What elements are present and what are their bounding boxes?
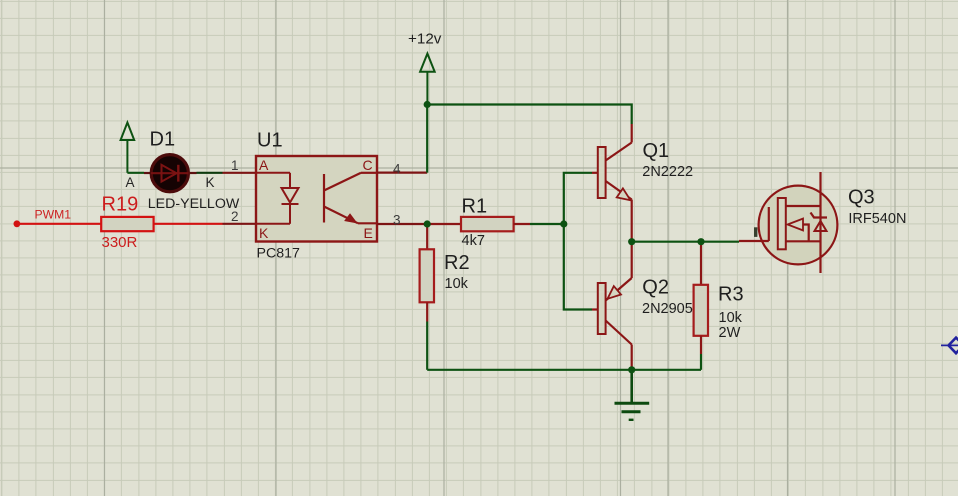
- value 2N2222: [642, 164, 693, 180]
- svg-text:E: E: [364, 225, 373, 241]
- svg-text:D1: D1: [150, 129, 176, 151]
- svg-text:3: 3: [393, 212, 401, 227]
- node PWM1 label: [35, 208, 72, 222]
- svg-text:IRF540N: IRF540N: [848, 211, 906, 227]
- label R2: [444, 252, 470, 274]
- label Q3: [848, 186, 875, 208]
- svg-text:2N2905: 2N2905: [642, 301, 693, 317]
- junction gate node: [697, 238, 704, 245]
- LED D1: [151, 155, 189, 192]
- pin 4 stub of U1: [377, 172, 427, 174]
- U1 pin name E: [364, 225, 373, 241]
- value PC817: [257, 246, 300, 262]
- svg-text:A: A: [259, 157, 269, 173]
- svg-text:Q1: Q1: [643, 140, 670, 162]
- R1 right lead: [514, 223, 530, 225]
- label D1: [150, 129, 176, 151]
- D1 cathode pin stub: [188, 172, 197, 174]
- value LED-YELLOW: [148, 196, 240, 212]
- U1 pin name C: [363, 157, 373, 173]
- wire R2 to ground rail: [426, 322, 428, 370]
- power terminal +V (anode of D1): [121, 123, 135, 173]
- junction +12v node: [424, 101, 431, 108]
- wire emitter node to gate node: [632, 241, 701, 243]
- svg-text:1: 1: [231, 158, 239, 173]
- resistor R1: [461, 217, 514, 231]
- junction base node: [560, 220, 567, 227]
- svg-text:U1: U1: [257, 130, 283, 152]
- value 330R: [102, 234, 138, 251]
- optocoupler U1 body: [256, 156, 377, 242]
- svg-text:LED-YELLOW: LED-YELLOW: [148, 196, 240, 212]
- label R1: [462, 196, 488, 218]
- wire R1 to base node: [530, 223, 564, 225]
- label Q1: [643, 140, 670, 162]
- R3 top lead: [700, 242, 702, 285]
- value 4k7: [462, 233, 485, 249]
- wire ground rail bottom: [427, 369, 701, 371]
- junction emitter node: [628, 238, 635, 245]
- svg-text:10k: 10k: [719, 310, 743, 326]
- value 2W: [719, 325, 741, 341]
- svg-text:K: K: [206, 175, 215, 190]
- svg-text:Q3: Q3: [848, 186, 875, 208]
- pin number 1: [231, 158, 239, 173]
- wire PWM1 terminal to R19 (red net): [17, 223, 102, 225]
- terminal PWM1 (input terminal dot): [14, 220, 21, 227]
- svg-text:4k7: 4k7: [462, 233, 485, 249]
- value 10k: [719, 310, 743, 326]
- svg-text:C: C: [363, 157, 373, 173]
- wire +12v rail down to pin4: [426, 105, 428, 173]
- svg-text:10k: 10k: [445, 276, 469, 292]
- label U1: [257, 130, 283, 152]
- value 2N2905: [642, 301, 693, 317]
- label R3: [718, 284, 744, 306]
- U1 pin name A: [259, 157, 269, 173]
- wire gate node to Q3 gate: [701, 241, 739, 243]
- value IRF540N: [848, 211, 906, 227]
- svg-text:K: K: [259, 225, 269, 241]
- resistor R19: [101, 217, 153, 231]
- wire D1 cathode to U1 pin1: [197, 172, 223, 174]
- svg-text:2W: 2W: [719, 325, 741, 341]
- D1 anode pin stub: [144, 172, 152, 174]
- ground: [615, 370, 650, 420]
- wire R19 to U1 pin2 (red net): [154, 223, 223, 225]
- R3 bottom lead: [700, 336, 702, 354]
- svg-text:PC817: PC817: [257, 246, 300, 262]
- Q3 gate pin mark: [754, 227, 757, 237]
- wire base node to Q1 base and Q2 base: [564, 173, 592, 310]
- svg-text:Q2: Q2: [642, 277, 669, 299]
- wire +12v rail to Q1 collector: [427, 105, 632, 125]
- svg-text:2N2222: 2N2222: [642, 164, 693, 180]
- power terminal +12v: [420, 54, 435, 105]
- pin 1 stub of U1: [223, 172, 257, 174]
- Q1 base pin stub: [592, 172, 598, 174]
- svg-text:+12v: +12v: [408, 31, 442, 48]
- resistor R2: [420, 249, 434, 302]
- pin number 4: [393, 161, 401, 176]
- U1 pin name K: [259, 225, 269, 241]
- R2 bottom lead: [426, 302, 428, 321]
- Q2 base pin stub: [592, 308, 598, 310]
- resistor R3: [694, 285, 708, 336]
- R1 left lead: [427, 223, 461, 225]
- svg-text:R1: R1: [462, 196, 488, 218]
- svg-text:R3: R3: [718, 284, 744, 306]
- svg-text:R19: R19: [102, 194, 139, 216]
- svg-text:330R: 330R: [102, 234, 138, 251]
- junction node pin3 / R1 / R2: [424, 220, 431, 227]
- svg-text:4: 4: [393, 161, 401, 176]
- svg-text:A: A: [126, 175, 135, 190]
- R2 top lead: [426, 224, 428, 249]
- node label A: [126, 175, 135, 190]
- junction ground node: [628, 366, 635, 373]
- svg-text:R2: R2: [444, 252, 470, 274]
- pin 2 stub of U1: [223, 223, 257, 225]
- transistor Q1 2N2222: [598, 124, 632, 242]
- label R19: [102, 194, 139, 216]
- wire R3 to ground rail: [700, 354, 702, 370]
- node label K: [206, 175, 215, 190]
- pin number 3: [393, 212, 401, 227]
- mosfet Q3 IRF540N: [739, 172, 837, 273]
- pin number 2: [231, 209, 239, 224]
- U1 internal phototransistor: [324, 173, 377, 224]
- origin marker (blue): [941, 338, 958, 354]
- label +12v: [408, 31, 442, 48]
- U1 internal LED: [256, 173, 299, 224]
- value 10k: [445, 276, 469, 292]
- wire power to D1 anode: [127, 172, 144, 174]
- pin 3 stub of U1: [377, 223, 427, 225]
- svg-text:PWM1: PWM1: [35, 208, 72, 222]
- label Q2: [642, 277, 669, 299]
- transistor Q2 2N2905: [598, 242, 632, 370]
